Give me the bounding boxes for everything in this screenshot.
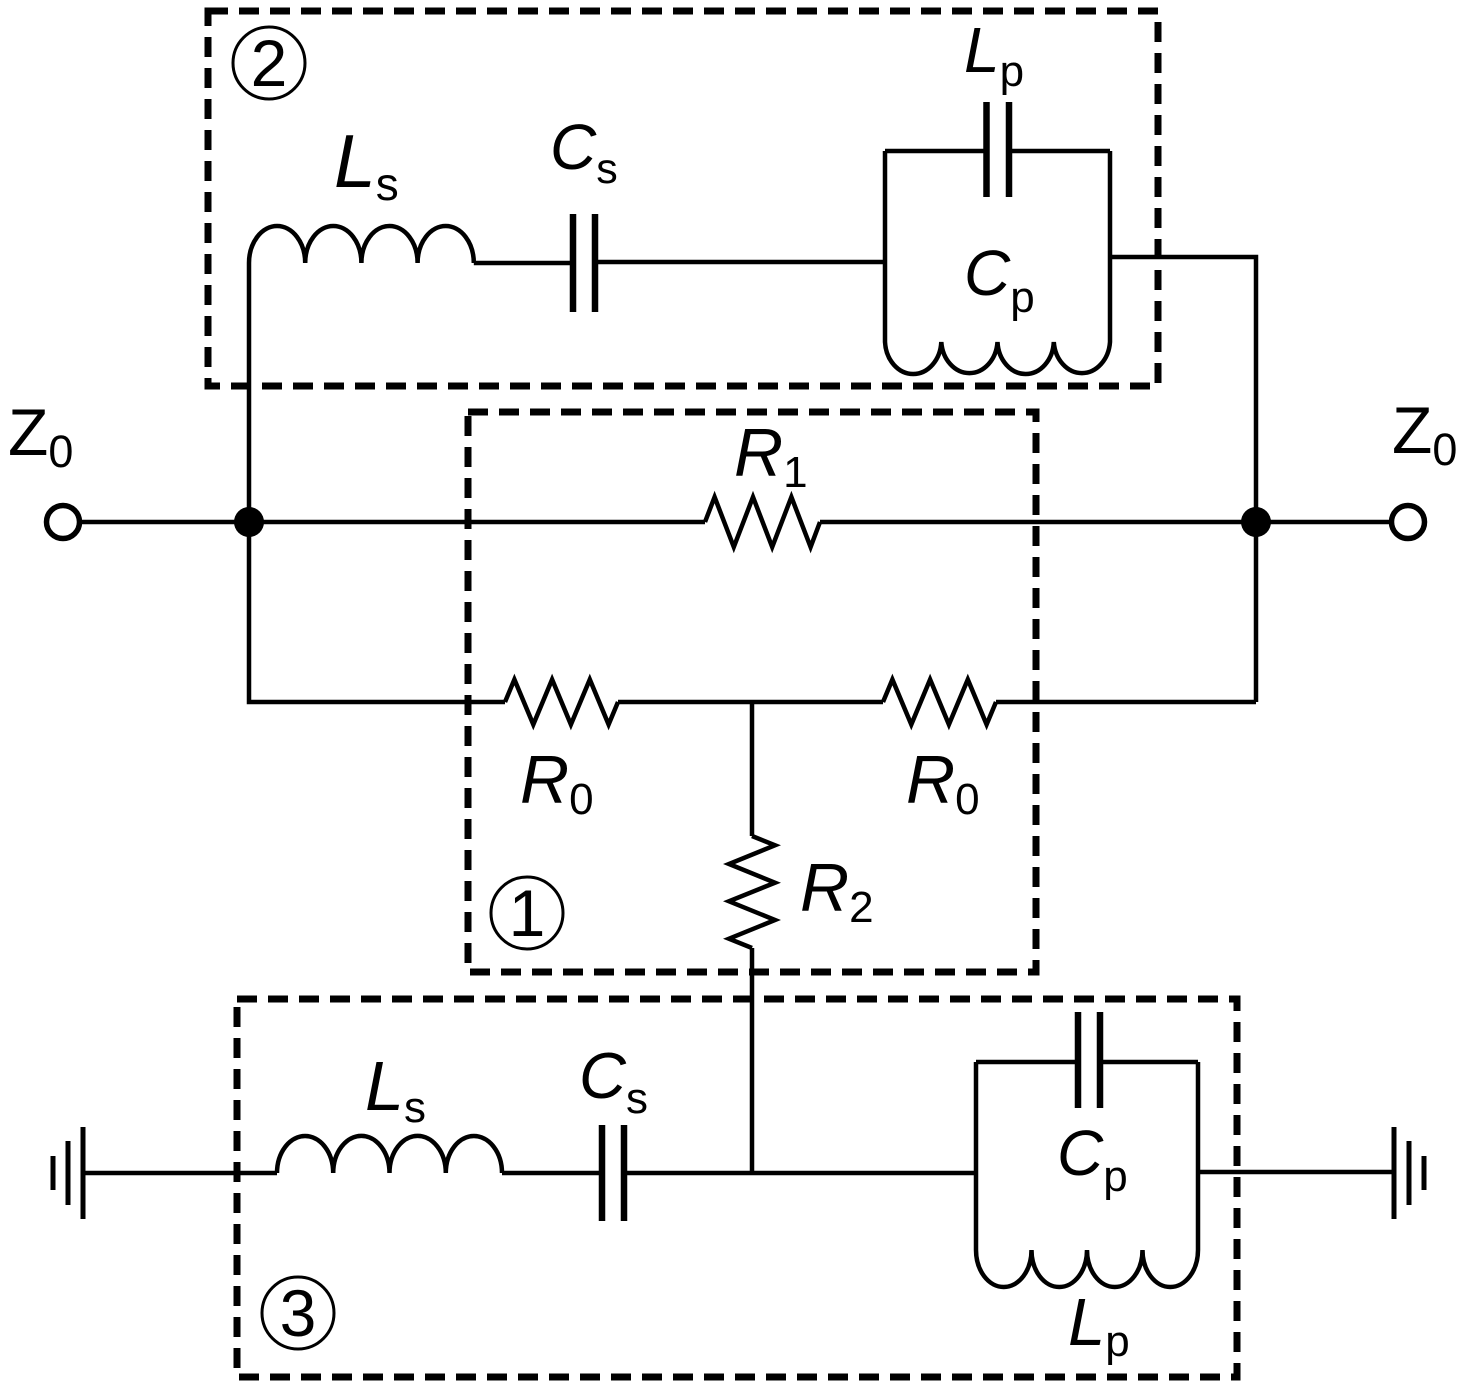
circled 1 <box>491 876 563 950</box>
right terminal <box>1392 506 1425 539</box>
node right <box>1241 507 1271 537</box>
wire main line left <box>82 520 705 525</box>
LC tank (bottom): capacitor in top edge, inductor in bottom edge <box>976 1012 1198 1287</box>
wire Cs to tank (tee with R2 line) <box>624 1171 976 1176</box>
resistor R2 <box>729 836 775 948</box>
wire tank to right corner and down <box>1110 257 1256 702</box>
wire left vertical from node up to Ls <box>247 263 252 524</box>
left terminal <box>47 506 80 539</box>
wire Ls to Cs <box>502 1171 602 1176</box>
wire center tee down <box>750 702 755 836</box>
wire R0 right to corner <box>996 700 1256 705</box>
inductor Ls (bottom) <box>277 1136 502 1173</box>
circled 2 <box>233 26 305 100</box>
wire Cs to tank <box>596 260 885 265</box>
wire node left down to lower branch <box>249 522 505 702</box>
inductor Ls (top) <box>249 226 474 263</box>
wire ground to Ls <box>83 1171 277 1176</box>
wire R2 down to bottom branch <box>750 948 755 1173</box>
capacitor Cs (top) <box>573 214 595 312</box>
dashed box 1 <box>468 412 1036 972</box>
wire main line right <box>820 520 1389 525</box>
capacitor Cs (bottom) <box>602 1125 624 1221</box>
wire tank to right ground <box>1198 1170 1394 1175</box>
dashed box 2 <box>208 11 1158 386</box>
LC tank (top): capacitor in top edge, inductor in bottom edge <box>885 102 1110 374</box>
wire Ls to Cs <box>474 261 572 266</box>
svg-text:1: 1 <box>509 876 546 950</box>
circled 3 <box>262 1276 334 1350</box>
wire between R0s <box>618 700 883 705</box>
resistor R1 <box>705 497 820 547</box>
node left <box>234 507 264 537</box>
ground left <box>53 1127 83 1219</box>
ground right <box>1394 1127 1424 1219</box>
svg-text:2: 2 <box>251 26 288 100</box>
resistor R0 right <box>883 680 996 725</box>
resistor R0 left <box>505 680 618 725</box>
dashed box 3 <box>237 999 1237 1377</box>
svg-text:3: 3 <box>280 1276 317 1350</box>
